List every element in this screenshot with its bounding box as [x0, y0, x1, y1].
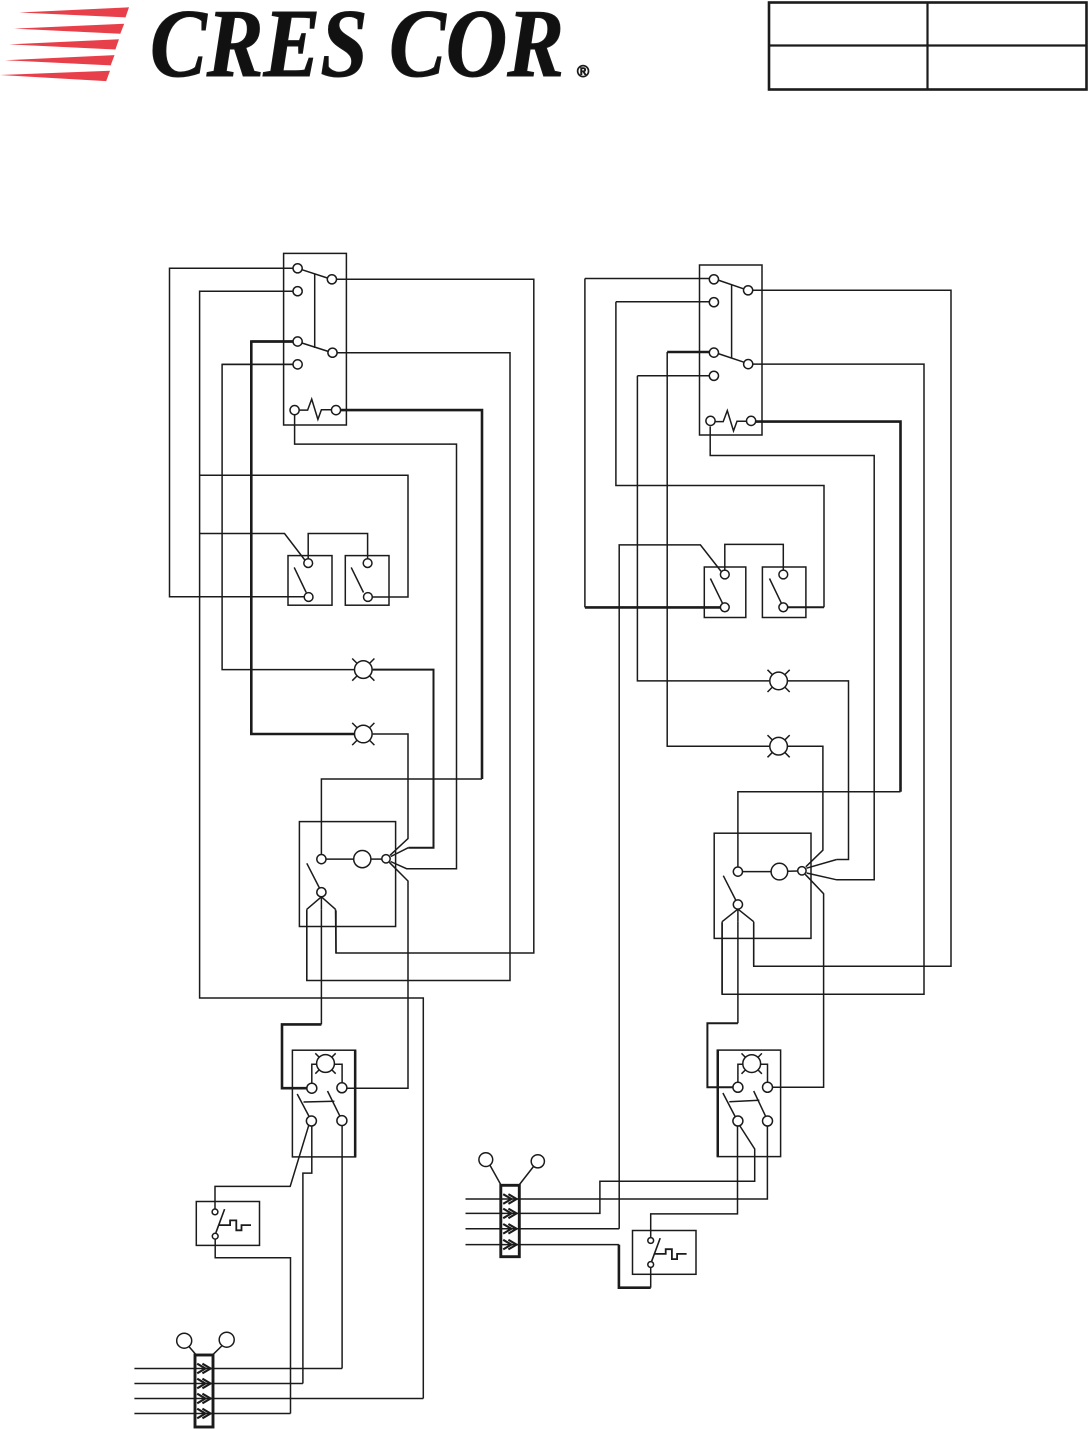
- motor M2 centrifugal switch: [722, 876, 754, 922]
- wire: [251, 342, 354, 735]
- svg-text:®: ®: [577, 63, 589, 81]
- thermostat T2 contacts: [709, 275, 753, 381]
- wire: [519, 1126, 754, 1214]
- wire: [134, 1413, 290, 1415]
- switch S3: [704, 567, 746, 618]
- wire: [519, 1126, 767, 1199]
- wire: [725, 544, 784, 570]
- lighted switch SW1 contacts: [297, 1083, 347, 1126]
- wire: [200, 291, 424, 1398]
- wire: [619, 545, 721, 1229]
- wire: [303, 1126, 312, 1384]
- heating element HTR1: [177, 1332, 235, 1427]
- wire: [651, 1126, 738, 1237]
- wire: [373, 670, 434, 857]
- motor M1 centrifugal switch: [307, 863, 336, 909]
- motor M2 windings: [733, 863, 806, 880]
- wire: [251, 340, 293, 343]
- logo wordmark CRES COR: [150, 0, 589, 97]
- wire: [134, 1368, 342, 1370]
- wire: [308, 534, 367, 560]
- lighted switch SW2 contacts: [723, 1082, 773, 1126]
- wire: [616, 301, 709, 303]
- wire: [637, 376, 769, 681]
- lighted switch SW2 lamp: [738, 1053, 768, 1082]
- wire: [466, 1228, 620, 1230]
- wire: [738, 422, 901, 867]
- heating element HTR2: [479, 1153, 545, 1257]
- wire: [373, 734, 408, 855]
- wire: [519, 1245, 650, 1288]
- wire: [347, 862, 408, 1088]
- wire: [134, 1398, 423, 1400]
- hi-limit switch HL1: [196, 1202, 259, 1246]
- wire: [282, 909, 321, 1088]
- wire: [753, 922, 755, 966]
- wire: [585, 278, 709, 280]
- lighted switch SW2 body: [717, 1050, 780, 1157]
- wire: [215, 1239, 290, 1413]
- wire: [321, 410, 482, 854]
- wire: [585, 279, 721, 608]
- thermostat T1 sensing element: [290, 399, 341, 419]
- motor M1 body: [299, 822, 395, 927]
- switch S2: [345, 556, 389, 606]
- wire: [200, 475, 408, 597]
- wire: [215, 1125, 309, 1209]
- wire: [707, 922, 738, 1088]
- switch S1: [288, 556, 332, 606]
- thermostat T1 contacts: [293, 264, 337, 369]
- indicator lamp L2: [352, 723, 374, 745]
- wire: [772, 874, 823, 1087]
- wire: [637, 375, 709, 377]
- wire: [788, 746, 823, 867]
- wire: [222, 363, 293, 365]
- wire: [335, 909, 338, 953]
- wire: [466, 1212, 520, 1214]
- wire: [200, 290, 293, 292]
- motor M2 body: [714, 833, 811, 938]
- wire: [306, 909, 308, 980]
- wire: [466, 1244, 520, 1246]
- wire: [341, 1126, 343, 1369]
- hi-limit switch HL2: [633, 1231, 697, 1275]
- switch S4: [762, 567, 806, 618]
- title block table: [769, 3, 1087, 90]
- wire: [295, 415, 457, 869]
- indicator lamp L1: [352, 659, 374, 681]
- wire: [466, 1198, 520, 1200]
- wire: [753, 290, 951, 966]
- wire: [170, 268, 305, 597]
- thermostat T2 body: [700, 265, 763, 435]
- wire: [200, 534, 305, 561]
- lighted switch SW1 lamp: [312, 1053, 342, 1083]
- thermostat T2 sensing element: [706, 411, 756, 431]
- wire: [170, 267, 294, 269]
- svg-text:CRES COR: CRES COR: [150, 0, 564, 97]
- wire: [134, 1383, 303, 1385]
- lighted switch SW1 body: [292, 1050, 355, 1157]
- wire: [336, 279, 534, 953]
- wire: [222, 364, 354, 669]
- motor M1 windings: [317, 851, 390, 868]
- wire: [721, 922, 723, 994]
- indicator lamp L3: [768, 670, 790, 692]
- wire: [307, 353, 510, 981]
- wire: [616, 302, 824, 608]
- wire: [710, 427, 874, 880]
- logo red speed stripes: [0, 7, 129, 81]
- wire: [667, 352, 769, 746]
- thermostat T1 body: [284, 253, 347, 425]
- wire: [667, 351, 709, 354]
- indicator lamp L4: [768, 735, 790, 757]
- wire: [788, 681, 849, 868]
- wire: [722, 364, 924, 994]
